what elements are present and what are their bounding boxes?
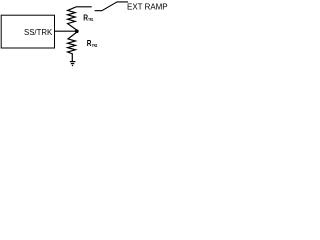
svg-text:TR2: TR2 <box>92 43 98 48</box>
svg-text:TR1: TR1 <box>88 17 93 22</box>
svg-text:EXT RAMP: EXT RAMP <box>127 2 168 12</box>
wire <box>55 30 78 32</box>
resistor RTR2 <box>68 32 77 61</box>
junction dot <box>75 29 79 33</box>
ground <box>70 62 76 66</box>
block SS/TRK <box>1 15 54 48</box>
resistor RTR1 <box>68 7 92 30</box>
ramp waveform symbol <box>95 2 128 11</box>
svg-text:SS/TRK: SS/TRK <box>24 28 53 37</box>
svg-text:R: R <box>87 38 92 48</box>
